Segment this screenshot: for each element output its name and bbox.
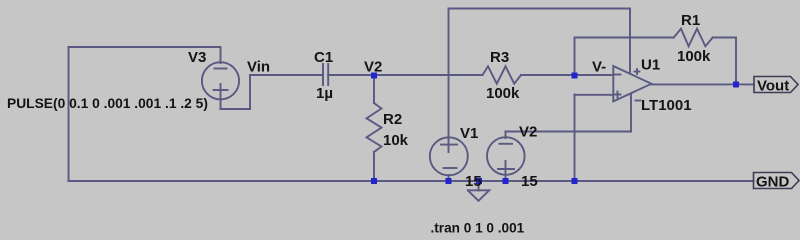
resistor R1: [674, 29, 713, 47]
wire R2 top stub: [373, 75, 375, 103]
wire plus input down to ground rail: [574, 95, 576, 182]
wire feedback up: [574, 38, 576, 76]
wire R2 bottom stub: [373, 152, 375, 181]
flag Vout: [754, 77, 798, 93]
node plus input ground: [572, 178, 578, 184]
svg-text:10k: 10k: [383, 132, 409, 149]
wire bottom ground rail: [69, 180, 754, 182]
svg-text:V3: V3: [188, 49, 206, 66]
svg-text:15: 15: [465, 173, 482, 190]
capacitor C1: [323, 64, 328, 85]
wire V+ down to opamp: [629, 9, 631, 73]
node R2 bottom: [371, 178, 377, 184]
wire feedback top to R1: [575, 37, 674, 39]
wire V3 bottom stub: [220, 84, 222, 109]
svg-text:.tran 0 1 0 .001: .tran 0 1 0 .001: [431, 221, 525, 236]
wire opamp plus input horizontal: [575, 94, 614, 96]
svg-text:Vin: Vin: [247, 59, 270, 76]
svg-text:V-: V-: [592, 59, 606, 76]
node V2 junction: [371, 73, 377, 79]
svg-text:PULSE(0 0.1 0 .001 .001 .1 .2: PULSE(0 0.1 0 .001 .001 .1 .2 5): [7, 96, 208, 111]
wire V1 bottom stub: [448, 175, 450, 181]
wire opamp V- supply vertical: [630, 95, 632, 132]
svg-text:R1: R1: [681, 12, 700, 29]
wire down to output node: [735, 38, 737, 85]
node V- junction: [572, 73, 578, 79]
svg-text:1µ: 1µ: [316, 85, 333, 102]
wire R3 to opamp: [521, 74, 613, 76]
node ground junction: [476, 178, 482, 184]
svg-text:GND: GND: [756, 174, 790, 191]
svg-text:R3: R3: [490, 49, 509, 66]
svg-text:100k: 100k: [486, 85, 520, 102]
ground symbol: [468, 181, 489, 201]
svg-text:100k: 100k: [677, 48, 711, 65]
wire top left horizontal: [69, 46, 221, 48]
svg-text:V2: V2: [519, 124, 537, 141]
svg-text:Vout: Vout: [757, 78, 789, 95]
voltage source V3: [202, 62, 239, 99]
resistor R3: [483, 66, 522, 83]
svg-text:V2: V2: [364, 59, 382, 76]
wire opamp output: [651, 83, 753, 85]
svg-text:C1: C1: [314, 49, 333, 66]
node V1 bottom: [446, 178, 452, 184]
wire up to Vin: [249, 75, 251, 109]
wire V2 top stub: [505, 132, 507, 139]
node V2 bottom: [503, 178, 509, 184]
wire left vertical: [68, 47, 70, 181]
wire V2 to opamp V- supply: [506, 131, 632, 133]
svg-text:U1: U1: [641, 57, 660, 74]
svg-text:R2: R2: [383, 111, 402, 128]
voltage source V1: [430, 137, 468, 175]
op-amp U1: [613, 66, 651, 101]
wire C1 to R3: [328, 74, 482, 76]
wire V+ rail top horizontal: [449, 8, 631, 10]
wire V3 top stub: [220, 47, 222, 63]
wire V2 bottom stub: [505, 161, 507, 181]
wire below V3 horizontal: [221, 108, 251, 110]
voltage source V2: [487, 137, 525, 175]
node output junction: [733, 82, 739, 88]
svg-text:LT1001: LT1001: [641, 97, 692, 114]
flag GND: [754, 173, 800, 189]
resistor R2: [367, 103, 382, 152]
svg-text:15: 15: [521, 173, 538, 190]
wire V1 top vertical: [448, 9, 450, 153]
wire R1 to corner: [713, 37, 736, 39]
wire Vin to C1: [250, 74, 323, 76]
svg-text:V1: V1: [460, 125, 478, 142]
